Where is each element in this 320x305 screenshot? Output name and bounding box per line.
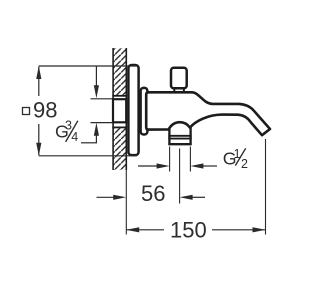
wall right edge [125, 48, 127, 170]
wall hole bottom cap [112, 126, 127, 128]
union bottom extension line [91, 122, 113, 124]
svg-text:4: 4 [71, 130, 78, 144]
wall hatching lower part [114, 127, 126, 170]
dim: arrow down to union top [95, 67, 97, 88]
escutcheon flange [128, 65, 138, 155]
150 dim left extension (wall face lower) [125, 170, 127, 235]
wall hatching upper part [114, 48, 126, 96]
svg-text:98: 98 [33, 98, 57, 123]
centerline of outlet [179, 149, 181, 204]
150 dim right extension line (spout tip) [265, 139, 267, 235]
wall left edge [112, 48, 114, 170]
G1/2 dim left arrow [138, 165, 159, 167]
G1/2 dim right arrow [201, 165, 217, 167]
faucet body and spout outline [146, 92, 270, 135]
56 dim right arrow [190, 196, 205, 198]
dim: flange bottom extension line [39, 155, 137, 157]
dim: flange top extension line [39, 65, 139, 67]
G3/4 union square in wall [113, 99, 126, 122]
150 dim line right segment [212, 229, 266, 231]
150 dim line left segment [126, 229, 164, 231]
label square 98 [23, 108, 30, 115]
cartridge stem ribs [173, 88, 175, 93]
union top extension line [91, 98, 113, 100]
150 right arrow [253, 227, 266, 232]
wall hole top cap [112, 95, 127, 97]
hand-shower outlet collar and nut [168, 128, 191, 145]
svg-text:2: 2 [241, 157, 248, 171]
dim line 98 vertical [38, 67, 40, 97]
cartridge square [171, 68, 187, 89]
56 dim left arrow [97, 196, 116, 198]
G3/4 leader with up arrow [95, 134, 97, 143]
150 left arrow [126, 227, 139, 232]
arrow up (98 top) [36, 66, 41, 79]
svg-text:56: 56 [141, 181, 165, 206]
arrow down (98 bottom) [36, 143, 41, 156]
svg-text:150: 150 [170, 218, 207, 243]
G1/2 dim extension lines [169, 147, 171, 172]
neck between flange and body [141, 88, 148, 135]
